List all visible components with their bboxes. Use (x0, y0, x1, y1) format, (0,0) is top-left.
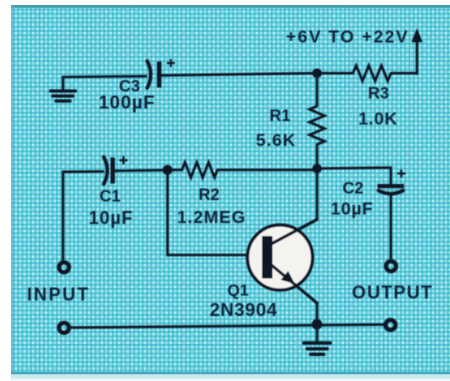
wire (63, 75, 146, 78)
node C (input node) (163, 165, 173, 175)
resistor R2 (168, 162, 318, 177)
svg-text:R2: R2 (198, 186, 219, 204)
wire (168, 170, 265, 255)
wire (316, 169, 319, 220)
wire (316, 303, 319, 324)
svg-text:C1: C1 (99, 188, 120, 206)
wire (71, 325, 384, 328)
svg-text:1.2MEG: 1.2MEG (177, 207, 246, 227)
input terminal lower (59, 323, 69, 333)
node D (emitter/ground node) (312, 319, 323, 330)
svg-text:100µF: 100µF (99, 92, 156, 113)
resistor R3 (317, 66, 417, 81)
capacitor C2 (378, 170, 405, 194)
svg-text:R1: R1 (269, 107, 290, 125)
svg-text:INPUT: INPUT (27, 285, 90, 305)
node A (supply node) (312, 68, 322, 78)
svg-text:5.6K: 5.6K (256, 130, 296, 150)
ground (304, 324, 331, 354)
capacitor C1 (104, 157, 127, 184)
wire (317, 168, 391, 184)
svg-text:10µF: 10µF (89, 208, 134, 228)
output terminal upper (386, 261, 396, 271)
svg-text:OUTPUT: OUTPUT (352, 283, 433, 303)
wire (115, 169, 162, 172)
wire (63, 170, 103, 173)
svg-text:Q1: Q1 (227, 283, 248, 300)
supply arrow +6V TO +22V (411, 28, 422, 42)
transistor Q1 (248, 220, 318, 304)
input terminal upper (59, 262, 69, 272)
capacitor C3 (147, 60, 174, 88)
svg-text:1.0K: 1.0K (358, 109, 397, 129)
wire (62, 172, 65, 261)
node B (base divider node) (312, 164, 322, 174)
svg-text:10µF: 10µF (331, 199, 374, 219)
svg-text:R3: R3 (368, 85, 389, 103)
resistor R1 (310, 73, 325, 168)
svg-text:2N3904: 2N3904 (210, 299, 278, 320)
ground (51, 77, 76, 101)
wire (416, 38, 419, 74)
svg-text:C2: C2 (342, 180, 363, 198)
svg-text:+6V TO +22V: +6V TO +22V (286, 27, 409, 47)
output terminal lower (386, 320, 396, 330)
wire (389, 196, 392, 260)
wire (162, 73, 318, 75)
